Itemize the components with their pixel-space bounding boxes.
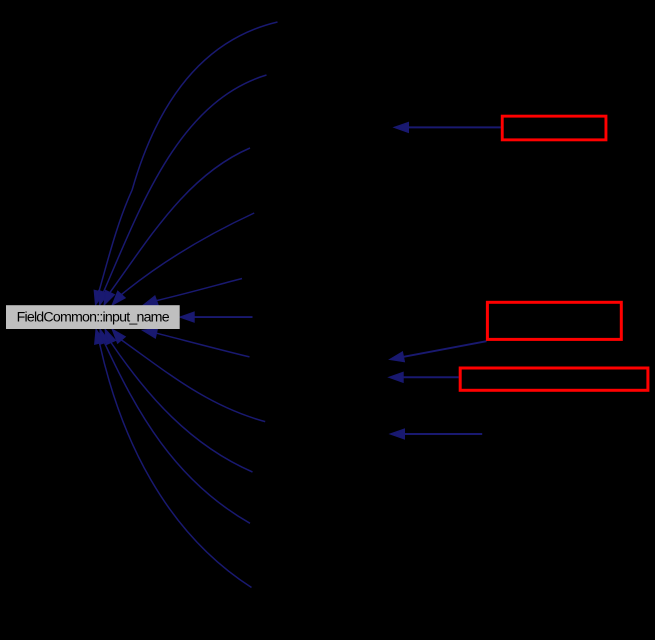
svg-text:FieldCommon::input_name: FieldCommon::input_name xyxy=(17,310,170,326)
